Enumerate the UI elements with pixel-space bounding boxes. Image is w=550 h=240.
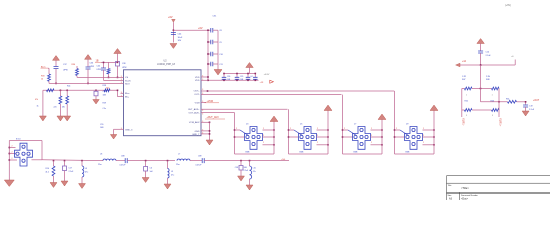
junction [247,80,249,82]
junction [381,129,383,131]
wire [459,64,515,66]
wire [208,79,259,81]
capacitor C88 [125,158,127,163]
wire [48,67,49,69]
wire to ground [42,90,44,116]
svg-text:C11: C11 [219,64,222,66]
svg-text:J5: J5 [300,124,303,126]
wire [81,161,83,166]
wire [343,153,383,155]
svg-text:C9: C9 [219,42,221,44]
wire [263,144,275,146]
svg-text:C17: C17 [69,168,72,170]
capacitor C34 [246,77,251,79]
wire [117,66,119,77]
power flag +12 [456,63,460,67]
svg-text:2: 2 [290,128,291,130]
junction [288,136,290,138]
capacitor C30 [253,77,257,79]
svg-text:47u: 47u [171,175,174,177]
wire [32,159,43,161]
svg-text:C40: C40 [97,66,100,68]
junction [327,129,329,131]
wire [263,136,275,138]
svg-text:GND: GND [195,131,200,133]
svg-text:Size: Size [448,195,453,197]
resistor [59,96,62,104]
wire loop drop [234,113,236,154]
junction [167,160,169,162]
resistor R42 [104,89,110,92]
junction [55,83,57,85]
wire [9,159,17,161]
svg-text:3: 3 [492,115,493,117]
ground [79,184,86,189]
svg-text:+6V: +6V [198,27,203,30]
mid tap wire [480,89,482,102]
junction [498,101,500,103]
ground [64,116,71,121]
svg-text:2.2uF: 2.2uF [244,170,249,172]
svg-text:C56: C56 [103,91,106,93]
wire ladder left rail [207,30,209,80]
junction [234,136,236,138]
svg-text:2: 2 [12,146,13,148]
inductor L9 [82,166,84,177]
wire [423,136,435,138]
wire [213,53,218,55]
wire bus [273,121,275,154]
svg-text:3: 3 [202,114,203,116]
svg-text:2: 2 [371,142,372,144]
wire [235,136,245,138]
svg-text:SDO: SDO [125,84,130,86]
jack J3 [245,127,263,150]
ground [206,140,213,145]
wire [472,88,492,90]
junction [81,160,83,162]
jack J9 [405,127,423,150]
resistor [107,69,110,75]
wire loop drop [288,109,290,154]
wire switch contact [240,130,249,136]
svg-text:C44: C44 [178,34,183,36]
junction [433,129,435,131]
capacitor C35 [235,77,240,79]
power [477,39,485,44]
capacitor C35 [86,67,91,69]
power [430,105,438,111]
ground [246,185,253,190]
svg-text:10B: 10B [100,127,104,129]
svg-text:47k: 47k [35,99,38,101]
svg-text:10uF: 10uF [178,37,183,39]
svg-text:R14: R14 [46,168,49,170]
svg-text:C37: C37 [63,64,68,66]
svg-text:C31: C31 [213,16,218,18]
svg-text:OUT+: OUT+ [194,91,201,93]
svg-text:XLR1-: XLR1- [462,118,466,126]
svg-text:R33: R33 [41,76,44,78]
wire INa+ stub [121,92,124,94]
wire [201,108,288,110]
svg-text:47u: 47u [253,171,256,173]
junction [103,62,105,64]
svg-text:L9: L9 [171,171,173,173]
svg-text:A3: A3 [449,198,453,201]
junction [108,77,110,79]
inductor [168,169,170,179]
svg-text:10: 10 [41,79,43,81]
svg-text:Document Number: Document Number [461,194,478,197]
wire [9,147,15,149]
svg-text:R48: R48 [486,79,489,81]
svg-text:C55: C55 [100,124,103,126]
junction [480,64,482,66]
svg-text:C6: C6 [150,168,152,170]
wire [59,90,61,96]
svg-text:R36: R36 [72,64,77,66]
svg-text:<Title>: <Title> [461,186,469,190]
junction [381,136,383,138]
wire [472,109,492,111]
wire [87,69,89,83]
svg-text:C4: C4 [250,76,252,78]
wire loop drop [394,91,396,154]
junction [394,129,396,131]
wire [77,76,124,78]
svg-text:2: 2 [371,128,372,130]
junction [9,147,11,149]
wire [9,153,15,155]
svg-text:1: 1 [492,94,493,96]
svg-text:+13: +13 [260,82,264,84]
svg-text:2: 2 [12,152,13,154]
capacitor C37 [54,67,59,69]
capacitor [523,105,528,107]
svg-text:47u: 47u [85,171,88,173]
ground [4,180,14,187]
svg-text:2.2H: 2.2H [486,76,491,78]
wire [395,136,405,138]
wire [127,160,175,162]
svg-text:INa-: INa- [125,97,129,99]
resistor R51 [508,100,517,103]
jack B10 [15,143,33,166]
svg-text:OUT_AUX-: OUT_AUX- [188,112,199,115]
junction [288,129,290,131]
junction [273,136,275,138]
junction [95,90,97,92]
junction [53,160,55,162]
svg-text:1.2R: 1.2R [462,76,467,78]
wire [101,61,118,63]
capacitor C10 [211,52,213,57]
wire [213,29,218,31]
wire [481,101,508,103]
wire [317,129,329,131]
svg-text:+6.8V: +6.8V [264,74,270,76]
wire loop [9,140,42,142]
svg-text:C38: C38 [122,63,125,65]
svg-text:C36: C36 [90,63,95,65]
svg-text:(+6V): (+6V) [505,4,511,7]
wire [172,22,174,42]
svg-text:1B: 1B [96,60,99,63]
ground [50,183,57,188]
svg-text:22m: 22m [176,164,180,166]
svg-text:2: 2 [423,128,424,130]
wire [371,136,383,138]
junction [207,80,209,82]
svg-text:B6B: B6B [246,151,250,153]
svg-text:INa+: INa+ [125,93,130,95]
capacitor C17 [63,166,67,171]
wire [208,63,211,65]
junction [327,136,329,138]
wire [204,160,289,162]
wire [208,41,211,43]
wire [371,129,383,131]
inductor [250,166,252,179]
wire [190,160,202,162]
svg-text:J7: J7 [354,124,357,126]
wire [208,29,211,31]
svg-text:UPW: UPW [63,70,68,72]
wire VCM_AUX [201,121,210,123]
svg-text:VDD: VDD [195,80,200,82]
wire [208,53,211,55]
svg-text:C89: C89 [198,156,201,158]
wire ladder right rail [217,30,219,69]
junction [342,129,344,131]
svg-text:GND_T: GND_T [192,134,200,136]
junction [207,53,209,55]
svg-text:Title: Title [448,184,453,187]
wire [317,144,329,146]
wire [480,53,482,65]
svg-text:C36: C36 [227,76,230,78]
resistor R48 [492,87,500,90]
svg-text:ACC: ACC [41,65,46,68]
svg-text:22m: 22m [98,164,102,166]
capacitor C9 [211,40,213,45]
svg-text:1: 1 [466,94,467,96]
svg-text:+OUT_AUX: +OUT_AUX [207,116,220,119]
svg-text:+6: +6 [511,56,514,58]
wire [395,129,401,131]
wire INa- link [117,90,119,96]
ground [170,44,177,49]
svg-text:2: 2 [317,128,318,130]
junction [64,160,66,162]
wire [43,89,118,91]
power [53,56,60,61]
resistor R41 [47,89,55,92]
svg-text:2: 2 [317,142,318,144]
wire [462,88,465,90]
wire [395,153,435,155]
svg-text:OUT-: OUT- [194,94,199,96]
svg-text:UPW: UPW [90,66,95,68]
resistor [52,166,55,176]
svg-text:B6B: B6B [300,151,304,153]
ground [93,100,100,105]
capacitor C38 [116,62,120,67]
junction [145,160,147,162]
power [85,55,92,60]
junction [223,73,225,75]
svg-text:2: 2 [263,135,264,137]
svg-text:VCM: VCM [195,102,200,104]
junction [223,80,225,82]
capacitor C58 [239,166,243,171]
svg-text:VDD: VDD [195,77,200,79]
junction [207,41,209,43]
svg-text:C19: C19 [529,106,534,108]
wire [66,90,68,96]
capacitor C56 [95,90,97,91]
wire [263,129,275,131]
svg-text:+12: +12 [462,61,467,63]
ground [214,70,222,76]
junction [394,136,396,138]
ground [142,178,149,183]
net +6 [514,60,516,66]
svg-text:16V: 16V [178,40,182,42]
svg-text:2: 2 [371,135,372,137]
junction [173,29,175,31]
junction [327,144,329,146]
wire [42,159,103,162]
junction [273,144,275,146]
svg-text:B6B: B6B [406,151,410,153]
junction [247,73,249,75]
svg-text:U2: U2 [163,59,167,62]
ground [164,184,171,189]
svg-text:C10: C10 [219,54,222,56]
svg-text:R52: R52 [465,101,468,103]
ground [57,116,64,121]
capacitor C44 [171,33,176,35]
resistor R50 [492,109,500,112]
junction [236,73,238,75]
resistor R33 [48,74,51,81]
svg-text:2: 2 [396,128,397,130]
svg-text:L8: L8 [100,154,103,156]
junction [87,83,89,85]
wire [462,109,465,111]
wire [289,136,299,138]
wire switch contact [400,130,409,136]
svg-text:C58: C58 [235,167,238,169]
svg-text:+6V: +6V [168,16,173,19]
ground [238,176,245,181]
wire [517,101,526,103]
junction [249,160,251,162]
svg-text:B6B: B6B [354,151,358,153]
svg-text:2: 2 [12,158,13,160]
svg-text:UPW: UPW [97,69,102,71]
svg-text:R58: R58 [103,85,106,87]
resistor [66,96,69,104]
resistor R47 [464,87,472,90]
svg-text:L7: L7 [178,154,181,156]
svg-text:1uF: 1uF [150,171,154,173]
svg-text:J3: J3 [246,124,249,126]
wire VCM stub [201,102,206,104]
wire [343,136,353,138]
ground [110,135,117,140]
power [246,63,254,68]
svg-text:UPW: UPW [122,67,127,69]
svg-text:L10: L10 [253,168,256,170]
svg-text:C88: C88 [121,156,124,158]
wire [55,69,57,84]
svg-text:GND_3: GND_3 [125,129,133,131]
svg-text:180: 180 [62,106,65,108]
wire loop drop [342,95,344,154]
junction [117,62,119,64]
junction [273,129,275,131]
svg-text:R59: R59 [103,102,106,104]
junction [207,90,209,92]
wire [317,136,329,138]
svg-text:3: 3 [466,115,467,117]
power [270,116,278,122]
junction [207,29,209,31]
capacitor [101,68,106,70]
svg-text:2.2uF: 2.2uF [69,171,75,173]
svg-text:C5x: C5x [103,108,106,110]
svg-text:2: 2 [423,142,424,144]
wire [201,94,342,96]
svg-text:2: 2 [317,135,318,137]
junction [117,90,119,92]
junction [9,153,11,155]
wire [289,153,329,155]
svg-text:3: 3 [202,110,203,112]
svg-text:10B: 10B [103,95,107,97]
junction [60,90,62,92]
svg-text:2: 2 [236,128,237,130]
wire switch contact [294,130,303,136]
svg-text:1k: 1k [37,106,39,108]
wire [104,79,124,81]
wire bus [381,119,383,154]
wire [461,89,463,118]
inductor L8 [103,159,116,161]
junction [255,80,257,82]
output capacitor C19 [525,102,527,105]
wire [423,144,435,146]
wire GND pins [201,130,210,132]
svg-text:R53: R53 [491,101,494,103]
svg-text:2: 2 [263,142,264,144]
junction [480,88,482,90]
junction [117,77,119,79]
svg-text:2: 2 [263,128,264,130]
power [378,114,386,120]
capacitor C89 [202,158,204,163]
capacitor C56 [94,91,98,96]
svg-text:C35: C35 [240,76,243,78]
svg-text:+5G: +5G [281,159,285,161]
capacitor C8 [211,28,213,33]
svg-text:R51: R51 [506,98,509,100]
svg-text:C14: C14 [486,52,491,54]
svg-text:C8: C8 [219,30,221,32]
